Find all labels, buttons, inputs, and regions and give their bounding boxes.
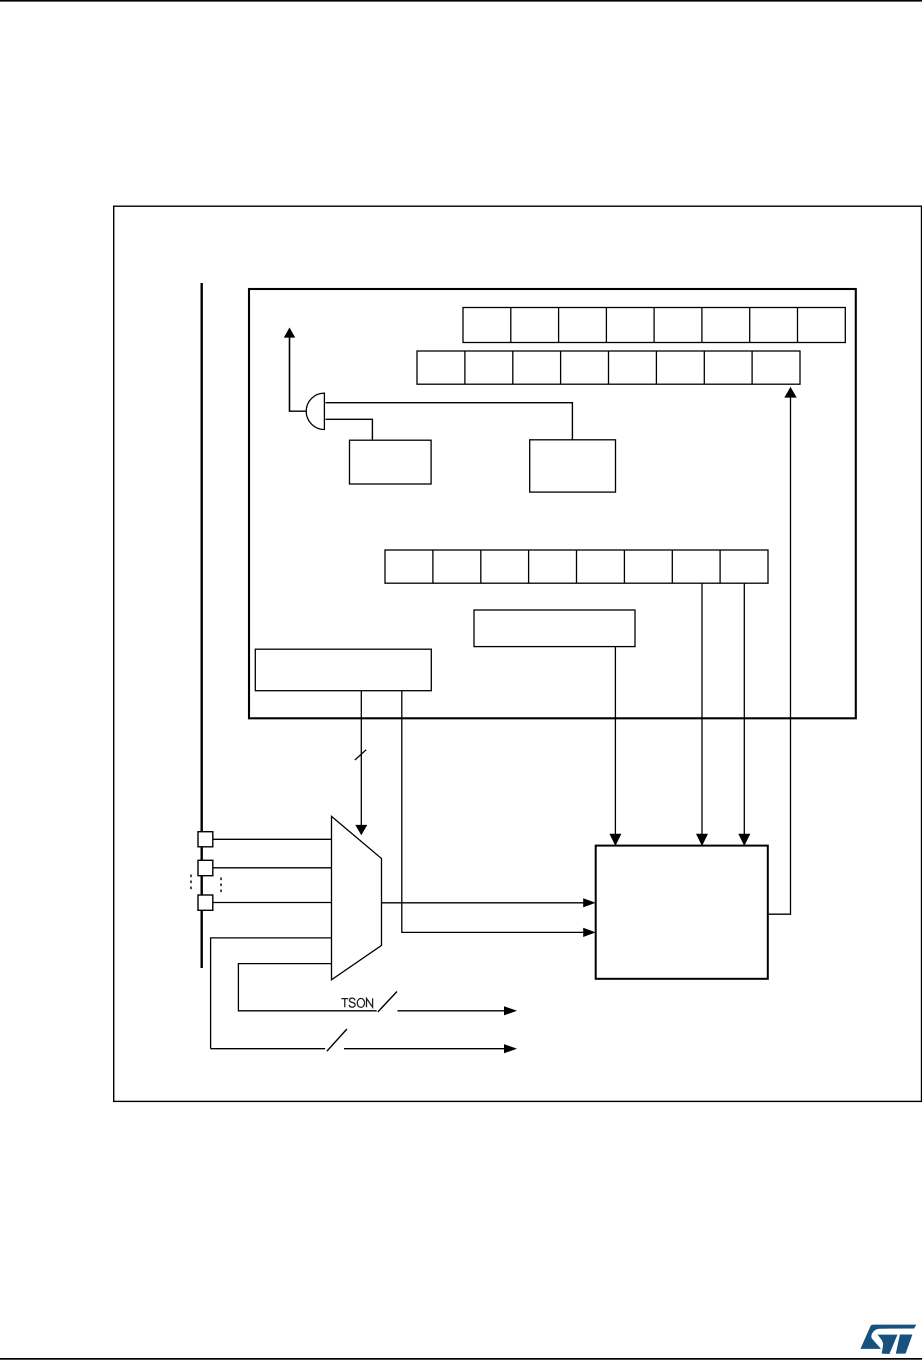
bottom page rule	[0, 1358, 922, 1360]
box C	[474, 610, 635, 647]
TSON switch blade	[378, 992, 397, 1013]
arrowhead into ADC left (lower)	[583, 928, 596, 937]
wire: box C down to ADC	[614, 647, 616, 835]
arrowhead temp sensor out	[504, 1006, 517, 1015]
pin square 2	[198, 860, 213, 875]
wire: pin 1 to mux	[213, 838, 332, 840]
register row 1 (8-bit)	[463, 308, 845, 343]
figure outer frame	[114, 206, 922, 1101]
box A	[350, 440, 432, 484]
top page rule	[0, 0, 922, 2]
wire: gate bottom input down to box A	[326, 419, 373, 440]
wire: gate top input to box B	[326, 403, 573, 440]
wire: gate output to up-arrow line	[290, 410, 308, 412]
arrowhead second out	[504, 1044, 517, 1053]
arrowhead into ADC top (right)	[738, 834, 750, 846]
pin square 1	[198, 832, 213, 847]
ellipsis dots right of pins	[220, 878, 222, 896]
wire: ADC feedback up to register row 2	[768, 397, 791, 914]
bus-width slash	[355, 750, 366, 760]
wire: bottom branch to second switch	[211, 1048, 326, 1050]
arrowhead into ADC top (middle)	[696, 834, 708, 846]
arrowhead up into row 2	[784, 387, 796, 398]
wire: mux input 4	[211, 938, 332, 1049]
ST logo	[860, 1325, 916, 1354]
TSON label	[341, 998, 372, 1007]
wire: row 3 bit to ADC (left)	[701, 583, 703, 834]
box B	[530, 440, 616, 492]
arrowhead into ADC top (left)	[609, 834, 621, 846]
box D	[255, 649, 431, 691]
wire: vertical up from gate output	[289, 337, 291, 412]
wire: mux input 5 to TSON switch	[238, 964, 376, 1011]
digital block inner box	[249, 289, 856, 718]
wire: row 3 bit to ADC (right)	[743, 583, 745, 834]
arrowhead up (interrupt out)	[284, 328, 295, 338]
wire: second out arrow	[344, 1048, 505, 1050]
wire: mux output to ADC	[382, 902, 584, 904]
register row 3 (8-bit)	[385, 550, 768, 583]
wire: pin 2 to mux	[213, 867, 332, 869]
wire: pin 3 to mux	[213, 902, 332, 904]
arrowhead into ADC left (upper)	[583, 898, 596, 907]
mux trapezoid	[332, 816, 382, 979]
second switch blade	[327, 1029, 347, 1051]
ADC box	[596, 846, 768, 979]
arrowhead down into mux	[355, 825, 367, 835]
wire: box D to mux select	[360, 691, 362, 826]
wire: box D down and right to ADC	[402, 691, 584, 932]
wire: temp sensor out arrow	[398, 1010, 505, 1012]
analog input bus line	[200, 283, 202, 968]
ellipsis dots left of pins	[190, 875, 192, 893]
pin square 3	[198, 895, 213, 910]
register row 2 (8-bit)	[417, 351, 800, 384]
AND gate (facing left)	[306, 393, 324, 429]
